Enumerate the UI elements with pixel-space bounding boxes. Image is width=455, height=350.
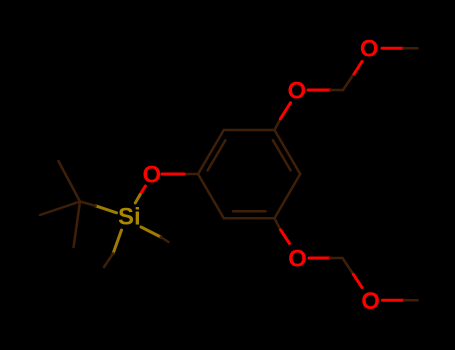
bond O2-CH3 carbon half — [404, 47, 418, 50]
bond CH2-O4 carbon half — [343, 258, 354, 274]
tert-butyl methyl up-left — [58, 161, 80, 202]
bond O4-CH3 oxygen half — [383, 299, 405, 302]
bond O3-CH2 carbon half — [330, 257, 343, 260]
bond C3-O3 carbon half — [275, 218, 281, 230]
benzene ring C1-C2 — [198, 174, 224, 218]
bond O1-CH2 oxygen half — [308, 89, 331, 92]
svg-text:O: O — [287, 77, 306, 104]
tert-butyl methyl down — [74, 202, 80, 248]
benzene ring C5-C6 — [224, 129, 275, 132]
tert-butyl methyl left — [40, 202, 80, 216]
bond C1-O(left) oxygen half — [162, 173, 184, 176]
bond O2-CH3 oxygen half — [382, 47, 404, 50]
bond O(left)-Si oxygen half — [140, 186, 145, 195]
svg-text:O: O — [360, 36, 379, 63]
bond O(left)-Si silicon half — [135, 195, 140, 203]
svg-text:Si: Si — [118, 204, 141, 231]
bond Si-C(q) silicon half — [96, 206, 117, 213]
aromatic inner line C2-C3 — [233, 210, 266, 213]
svg-text:O: O — [288, 246, 307, 273]
benzene ring C6-C1 — [198, 130, 224, 174]
bond Si-CH3 down-right carbon half — [161, 237, 169, 242]
bond Si-CH3 down-right silicon half — [141, 227, 161, 237]
svg-text:O: O — [361, 288, 380, 315]
bond CH2-O2 oxygen half — [354, 62, 362, 75]
benzene ring C3-C4 — [275, 174, 301, 218]
bond O4-CH3 carbon half — [404, 299, 418, 302]
bond CH2-O4 oxygen half — [353, 274, 362, 287]
bond C3-O3 oxygen half — [281, 230, 290, 244]
benzene ring C4-C5 — [275, 130, 301, 174]
aromatic inner line C6-C1 — [208, 140, 226, 170]
benzene ring C2-C3 — [224, 217, 275, 220]
bond Si-CH3 down-left silicon half — [113, 230, 121, 253]
bond CH2-O2 carbon half — [343, 75, 353, 90]
aromatic inner line C4-C5 — [273, 140, 291, 170]
bond Si-CH3 down-left carbon half — [104, 253, 113, 267]
bond C5-O1 oxygen half — [280, 103, 290, 119]
bond C1-O(left) carbon half — [184, 173, 198, 176]
bond O1-CH2 carbon half — [331, 89, 344, 92]
svg-text:O: O — [142, 161, 161, 188]
bond O3-CH2 oxygen half — [309, 257, 330, 260]
bond Si-C(q) carbon half — [80, 202, 96, 206]
bond C5-O1 carbon half — [275, 119, 281, 130]
